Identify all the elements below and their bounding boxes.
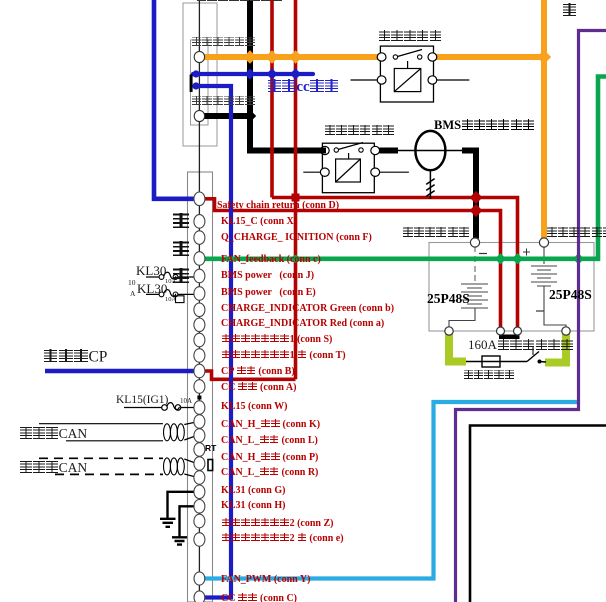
connector spine wire — [198, 0, 200, 592]
relay K2 terminal TL — [320, 146, 329, 154]
node blue bump 2 — [266, 68, 277, 79]
relay K1 coil lead left — [351, 79, 379, 81]
net label conn T — [221, 350, 346, 361]
thermistor RT — [208, 460, 213, 471]
orange wire relay to battery positive — [436, 54, 542, 60]
net label conn P — [221, 452, 318, 463]
red wire conn D safety chain — [204, 199, 500, 331]
label pole char top right — [562, 3, 577, 19]
label KL30 row1 — [136, 264, 166, 277]
cyan fan PWM wire — [204, 402, 578, 579]
label low voltage vertical 1 — [172, 212, 190, 230]
net label conn K — [221, 419, 320, 430]
relay K2 coil lead right — [379, 171, 409, 173]
label 10A fuse1 — [165, 279, 176, 286]
red wire conn B charge pilot — [204, 371, 295, 379]
wire black into relay K2 terminal — [312, 148, 326, 154]
orange charge positive wire — [204, 54, 378, 60]
label slow charge CP — [43, 349, 107, 365]
node green bump 1 — [495, 253, 506, 264]
switch S1 blade — [527, 352, 539, 362]
label 25P48S left — [427, 292, 470, 306]
label KL15 IG1 — [116, 395, 168, 407]
fast charge negative input terminal — [194, 110, 204, 121]
fuse F-main line — [466, 361, 527, 363]
CAN vehicle choke — [164, 424, 171, 441]
node orange bump 3 — [289, 50, 303, 64]
CAN fast pair line L dashed — [55, 473, 163, 475]
label low voltage vertical 3 — [172, 267, 190, 285]
fuse KL30-2 — [146, 293, 194, 295]
wire black negative bus to relay — [247, 148, 321, 154]
relay K2 coil — [336, 159, 361, 182]
net label conn L — [221, 435, 318, 446]
red wire V1 from top — [270, 0, 274, 198]
battery cell B1 link dashes — [474, 247, 476, 282]
ground G1 — [160, 492, 194, 527]
net label conn Z — [221, 518, 333, 529]
net label conn E — [221, 288, 316, 298]
CAN fast choke — [164, 458, 171, 475]
relay K1 terminal TR — [428, 53, 437, 61]
battery cell B2 lead — [544, 286, 566, 327]
battery cell B1 plates — [461, 284, 488, 308]
net label conn c — [221, 255, 321, 265]
node red bump over black 1 — [469, 191, 482, 204]
node green bump 3 — [573, 253, 584, 264]
net label conn W — [221, 402, 288, 412]
node orange junction — [537, 50, 551, 64]
net label conn e — [221, 533, 344, 544]
relay K1 coil — [394, 69, 421, 92]
relay K1 contact pivot right — [418, 55, 422, 59]
label battery negative — [402, 227, 469, 240]
label fast charge negative input — [191, 96, 256, 108]
node red bump over black 2 — [469, 204, 482, 217]
relay K1 coil lead right — [436, 79, 469, 81]
purple wire — [456, 31, 606, 602]
label RT — [205, 444, 216, 453]
net label conn S — [221, 334, 332, 345]
label low voltage vertical 2 — [172, 240, 190, 258]
node green bump v2 — [292, 255, 300, 263]
relay K2 contact pivot left — [334, 148, 338, 152]
wire black relay to hall thick — [379, 148, 398, 154]
label main negative relay — [324, 125, 394, 137]
low-voltage connector strip box — [188, 172, 213, 602]
net label conn b — [221, 304, 394, 314]
node orange bump 1 — [243, 50, 257, 64]
relay K1 contact blade — [398, 50, 423, 69]
battery negative terminal — [470, 238, 479, 247]
fuse KL15 — [124, 407, 194, 409]
wire black hall to battery negative — [462, 151, 476, 239]
relay K2 coil lead left — [303, 171, 321, 173]
label vehicle CAN — [19, 427, 87, 441]
relay K2 terminal BR — [371, 168, 380, 176]
relay K1 contact pivot left — [393, 55, 397, 59]
label battery positive — [546, 227, 606, 240]
battery cell B2 plus — [523, 247, 544, 264]
relay K1 terminal TL — [377, 53, 386, 61]
switch S1 lead — [539, 361, 546, 364]
battery cell B2 minus — [536, 310, 544, 312]
net label conn H — [221, 501, 285, 511]
blue wire cc fast charge down — [193, 86, 231, 598]
node orange bump 2 — [265, 50, 279, 64]
net label conn X — [221, 217, 297, 227]
CAN vehicle pair line L — [66, 440, 163, 442]
blue wire safety chain from top left — [154, 0, 196, 199]
label fast charge positive input — [191, 37, 256, 49]
net label conn D — [217, 201, 339, 211]
label fast CAN — [19, 461, 87, 475]
net label conn Y — [221, 575, 310, 585]
battery bottom terminal 3 — [514, 327, 522, 335]
fast charge positive input terminal — [194, 51, 204, 62]
label 10A fuse3 — [180, 398, 192, 405]
switch S1 contact — [538, 360, 542, 364]
net label conn B — [221, 366, 295, 377]
label 25P48S right — [549, 288, 592, 302]
node blue bump b — [192, 82, 199, 89]
node pin tick — [197, 396, 201, 400]
relay K1 coil diagonal — [394, 69, 421, 92]
net label conn G — [221, 486, 285, 496]
relay K1 terminal BL — [377, 76, 386, 84]
blue wire cc detect — [193, 72, 313, 76]
net label conn A — [221, 382, 296, 393]
net label conn C — [221, 593, 297, 602]
label 10A fuse2 — [165, 297, 176, 304]
relay K1 terminal BR — [428, 76, 437, 84]
fuse F-main body — [482, 356, 500, 367]
CAN vehicle pair line H — [39, 423, 163, 425]
battery cell B2 plates — [531, 266, 557, 286]
connector pin bar — [190, 75, 193, 93]
wire black from fast-charge negative input — [204, 113, 252, 119]
red wire H1 to battery — [272, 198, 518, 332]
net label conn J — [221, 271, 314, 281]
label BMS hall — [434, 119, 535, 132]
hall sensor ellipse — [415, 131, 445, 170]
battery pack box — [429, 243, 594, 332]
label 10 A stacked — [128, 279, 136, 287]
fuse KL30-1 — [146, 276, 194, 278]
top connector inner box — [191, 40, 209, 125]
label KL30 row2 — [137, 282, 167, 295]
hall output squiggle — [426, 170, 434, 199]
green fan feedback wire — [204, 77, 606, 259]
CAN fast pair line H dashed — [39, 457, 163, 459]
wire black negative bus vertical top — [247, 0, 253, 151]
battery positive terminal — [539, 238, 548, 247]
relay K2 contact blade — [338, 143, 363, 160]
node green bump 2 — [512, 253, 523, 264]
battery cell B1 minus — [479, 253, 487, 255]
small box below fuse2 — [176, 296, 185, 303]
node red junction V2-H1 — [292, 194, 300, 202]
battery bottom terminal 1 — [445, 327, 453, 335]
node blue bump a — [192, 70, 199, 77]
blue wire slow charge CP — [45, 369, 196, 374]
orange battery positive vertical — [541, 0, 547, 239]
ground G2 — [172, 506, 194, 544]
node black junction — [244, 110, 256, 122]
battery bottom terminal 4 — [562, 327, 570, 335]
battery cell B1 lead — [449, 308, 475, 327]
label main loop fuse — [463, 370, 514, 382]
net label conn R — [221, 467, 318, 478]
battery bottom bar — [499, 335, 520, 340]
charger box — [470, 426, 606, 602]
switch S1 actuator — [532, 346, 534, 355]
lime maintenance switch wire left — [449, 333, 466, 362]
net label conn F — [221, 233, 372, 243]
relay K2 main negative box — [322, 143, 374, 193]
top connector outer box — [183, 3, 217, 146]
red wire V2 from top — [294, 0, 298, 379]
node blue bump 3 — [290, 68, 301, 79]
node blue bump 1 — [244, 68, 255, 79]
relay K1 fast charge box — [380, 46, 433, 102]
relay K2 terminal BL — [320, 168, 329, 176]
top cut-off label — [196, 0, 282, 4]
label 160A manual switch — [468, 338, 573, 351]
net label conn a — [221, 319, 384, 329]
relay K2 coil diagonal — [336, 159, 361, 182]
lime maintenance switch wire right — [545, 333, 566, 363]
relay K2 terminal TR — [371, 146, 380, 154]
label cc detect — [267, 79, 339, 95]
label fast charge relay — [378, 29, 442, 42]
relay K2 contact pivot right — [359, 148, 363, 152]
wire thin through hall — [398, 150, 463, 152]
strip pin circles — [194, 192, 205, 602]
battery bottom terminal 2 — [497, 327, 505, 335]
